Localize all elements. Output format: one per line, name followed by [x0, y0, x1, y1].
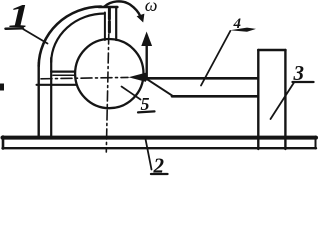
svg-text:5: 5: [141, 94, 150, 114]
svg-text:3: 3: [293, 61, 305, 85]
svg-text:2: 2: [153, 154, 165, 178]
svg-text:4: 4: [233, 16, 242, 32]
svg-text:ω: ω: [145, 0, 158, 15]
svg-text:1: 1: [8, 0, 30, 35]
